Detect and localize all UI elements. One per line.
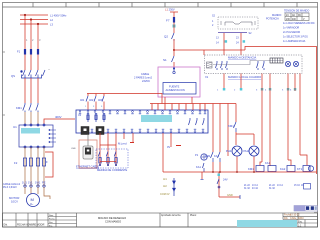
svg-text:31 32: 31 32 <box>244 188 250 190</box>
svg-text:21 22: 21 22 <box>244 185 250 187</box>
wire psu out right <box>191 97 193 104</box>
dashed measurement box <box>96 149 128 168</box>
svg-text:CABLE 4x6mm2: CABLE 4x6mm2 <box>3 183 21 186</box>
svg-text:1V1: 1V1 <box>28 181 33 185</box>
fuse F7 <box>173 17 175 23</box>
pilot light PH1 <box>232 146 242 156</box>
svg-text:24V: 24V <box>223 178 228 182</box>
svg-text:AC: AC <box>292 14 296 17</box>
fuse F6 <box>102 94 104 105</box>
svg-text:~: ~ <box>48 68 50 72</box>
svg-text:QS: QS <box>11 74 15 78</box>
svg-text:24VDC: 24VDC <box>142 80 150 83</box>
svg-text:MOLINO DE DESECHO: MOLINO DE DESECHO <box>98 216 126 220</box>
svg-text:PH2: PH2 <box>244 149 250 153</box>
svg-text:15 16: 15 16 <box>294 185 300 187</box>
svg-text:L1 400V 50Hz: L1 400V 50Hz <box>50 14 67 18</box>
soft starter U1 <box>19 124 56 148</box>
top ruler band <box>3 6 318 8</box>
wire switch to psu <box>173 50 175 56</box>
vfd relay output K2 <box>96 127 104 135</box>
title texts <box>4 214 304 228</box>
CT column 3 <box>114 152 117 166</box>
svg-text:400V: 400V <box>55 115 62 119</box>
wire drops below vfd <box>100 133 133 166</box>
svg-text:CON MANDO: CON MANDO <box>105 219 121 223</box>
svg-text:AI1: AI1 <box>163 178 167 181</box>
svg-text:PE: PE <box>42 181 46 185</box>
svg-text:DC: DC <box>298 15 302 17</box>
svg-text:RV-K 0,6/1kV: RV-K 0,6/1kV <box>3 187 17 189</box>
svg-text:USB: USB <box>71 148 76 150</box>
svg-text:21 22: 21 22 <box>269 185 275 187</box>
node L1 <box>24 14 26 16</box>
wire psu out left <box>164 97 166 104</box>
terminal cyan <box>173 25 176 28</box>
relay coil KA2 <box>287 166 295 172</box>
svg-text:F1: F1 <box>17 50 21 54</box>
svg-text:F: F <box>46 160 48 164</box>
svg-text:U1: U1 <box>13 125 17 129</box>
mini table <box>285 13 309 21</box>
svg-text:Plano:: Plano: <box>190 214 197 217</box>
wire to selector <box>203 50 205 55</box>
ct bus <box>100 161 116 163</box>
comb bus above vfd right <box>150 103 236 105</box>
svg-text:GND: GND <box>227 193 233 197</box>
wire terminals to motor <box>25 187 38 194</box>
node control bus <box>173 49 175 51</box>
disconnector QS <box>22 70 46 78</box>
svg-text:KA1: KA1 <box>214 154 219 158</box>
svg-text:3~: 3~ <box>30 202 34 206</box>
svg-text:POTENCIA: POTENCIA <box>266 18 279 21</box>
remote box dashed <box>205 55 303 74</box>
svg-text:KM1: KM1 <box>248 167 254 171</box>
node L2 <box>30 18 32 20</box>
wire control bus right <box>174 49 245 51</box>
cam block <box>270 58 283 63</box>
coil feed jogs <box>260 162 262 166</box>
bus L1 <box>20 14 48 16</box>
svg-text:Rev.: Rev. <box>49 222 53 224</box>
svg-text:1x LAMPARA ROJA: 1x LAMPARA ROJA <box>283 40 306 43</box>
svg-text:13 14: 13 14 <box>277 185 283 187</box>
legend lines <box>283 22 315 43</box>
contact KM aux <box>234 122 237 132</box>
vfd terminal micro labels <box>79 113 206 130</box>
overload relay F2 <box>23 158 45 166</box>
CT column 1 <box>98 152 101 166</box>
svg-text:KM1: KM1 <box>228 124 234 128</box>
svg-text:KM1: KM1 <box>16 106 22 110</box>
contact below meter <box>203 163 205 172</box>
wire KM to starter <box>25 112 38 124</box>
wire to remote box L <box>223 33 225 55</box>
contacts above N bus <box>211 152 221 162</box>
wire L3 feeder <box>37 24 39 49</box>
vfd inner contacts right <box>189 118 205 125</box>
svg-text:FUENTE: FUENTE <box>169 85 180 89</box>
svg-text:KA1: KA1 <box>196 165 201 169</box>
svg-text:Dib.: Dib. <box>284 217 289 220</box>
wire switch to junction <box>173 39 175 50</box>
cyan bar <box>237 220 297 227</box>
svg-text:31 32: 31 32 <box>269 188 275 190</box>
CT column 2 <box>106 152 109 166</box>
vfd display <box>141 115 172 122</box>
wire fuse to switch <box>173 23 175 34</box>
frame row tick B <box>3 114 6 116</box>
svg-text:S1: S1 <box>163 58 167 62</box>
frame row tick A <box>3 51 6 53</box>
selector hatch <box>207 62 213 68</box>
svg-text:Esc.: Esc. <box>49 225 53 227</box>
node L3 <box>37 23 39 25</box>
svg-text:0V: 0V <box>167 145 170 149</box>
svg-text:401: 401 <box>80 98 85 102</box>
wire QS to KM <box>25 78 38 103</box>
linkage <box>213 61 283 65</box>
vfd relay output K1 <box>81 127 89 135</box>
wire labels <box>218 32 247 34</box>
svg-text:1W1: 1W1 <box>35 181 41 185</box>
lamp a <box>285 61 290 66</box>
ethernet device <box>83 146 93 159</box>
columns from comb bus <box>213 104 236 157</box>
svg-text:MANDO A DISTANCIA: MANDO A DISTANCIA <box>228 56 256 60</box>
ethernet outline <box>79 140 97 168</box>
ethernet cable <box>87 135 89 146</box>
svg-text:COM 0V: COM 0V <box>160 193 170 196</box>
fuse F5 <box>94 94 96 105</box>
fuse F4 <box>86 94 88 105</box>
svg-text:KT1: KT1 <box>297 167 303 171</box>
wire aux feed to starter <box>44 119 75 124</box>
psu enclosure <box>158 67 200 97</box>
lamp b <box>293 61 298 66</box>
svg-text:X1: X1 <box>205 75 209 79</box>
motor M1 <box>27 194 40 207</box>
bus L2 <box>20 19 48 21</box>
pushbutton 2 <box>221 61 223 70</box>
svg-text:13 14: 13 14 <box>252 185 258 187</box>
svg-text:Aprobado la fecha: Aprobado la fecha <box>161 214 181 217</box>
wire control bus mid <box>87 94 162 104</box>
wire fuse to QS <box>25 55 38 71</box>
shield connector <box>173 178 176 196</box>
wire L2 feeder <box>30 20 32 50</box>
pushbutton 3 <box>226 61 228 70</box>
relay coil KM1 <box>256 166 264 172</box>
cross reference tables <box>244 185 304 190</box>
vfd U2 <box>76 110 208 133</box>
svg-text:KA2: KA2 <box>280 167 286 171</box>
svg-text:1x SELECTOR 3 POS: 1x SELECTOR 3 POS <box>283 36 308 39</box>
drops from remote box <box>224 74 300 167</box>
svg-text:1U1: 1U1 <box>22 181 27 185</box>
svg-text:MANDO LOCAL CUADRO: MANDO LOCAL CUADRO <box>228 75 262 79</box>
svg-text:TENSION DE MANDO: TENSION DE MANDO <box>284 10 309 13</box>
svg-text:Q2: Q2 <box>164 35 168 39</box>
contact 5 <box>263 61 265 70</box>
fuse F1 <box>24 49 39 55</box>
svg-text:F2: F2 <box>14 161 18 165</box>
svg-text:1x LOGO SIEMENS 230 RC: 1x LOGO SIEMENS 230 RC <box>283 22 315 25</box>
timer coil KT1 <box>303 166 310 172</box>
bus L3 <box>20 23 48 25</box>
bus drops <box>163 133 306 172</box>
relay coil KA1 <box>268 166 276 172</box>
pushbutton 1 <box>216 61 218 70</box>
svg-text:Esc.: Esc. <box>298 220 303 223</box>
svg-text:402: 402 <box>89 98 94 102</box>
PE wire to motor <box>44 187 50 199</box>
contactor KM1 main contacts <box>23 103 38 112</box>
psu FA1 <box>163 83 196 95</box>
N bus <box>163 171 313 173</box>
hour meter <box>201 154 207 160</box>
svg-text:AI2: AI2 <box>163 185 167 188</box>
terminal marks below remote box <box>217 88 296 92</box>
svg-text:PH1: PH1 <box>226 149 232 153</box>
svg-text:1x VARIADOR: 1x VARIADOR <box>283 27 299 30</box>
svg-text:2x PULSADOR: 2x PULSADOR <box>283 31 300 34</box>
svg-text:10CV: 10CV <box>11 200 18 204</box>
wire fuse drops <box>88 104 104 110</box>
wire L feed top <box>170 11 178 13</box>
svg-text:403: 403 <box>98 98 103 102</box>
pilot light PH2 <box>249 146 259 156</box>
wire starter to overload <box>25 147 44 186</box>
svg-text:F7: F7 <box>166 19 170 23</box>
vfd input elements <box>87 113 105 122</box>
svg-text:MEDIDA DE CORRIENTE: MEDIDA DE CORRIENTE <box>97 168 128 172</box>
wire to remote box R <box>240 33 242 55</box>
svg-text:43 44: 43 44 <box>252 188 258 190</box>
contact 4 <box>257 61 259 70</box>
svg-text:L1 230V: L1 230V <box>165 8 175 12</box>
wire big loop right <box>245 47 317 175</box>
svg-text:M.j.red: M.j.red <box>118 142 127 146</box>
bypass wire right of starter <box>45 152 53 177</box>
terminal circles <box>24 185 45 187</box>
junction dots on N bus <box>212 171 255 173</box>
switch S0 <box>172 33 175 39</box>
svg-text:Nom.: Nom. <box>49 215 54 217</box>
svg-text:KA1: KA1 <box>265 161 270 165</box>
svg-text:FECHA NOMBRE MODIF.: FECHA NOMBRE MODIF. <box>17 224 45 227</box>
wire L1 feeder <box>24 15 26 49</box>
drop with contact <box>201 172 220 197</box>
selector cam diagram <box>218 17 258 29</box>
vfd bottom terminals <box>83 131 204 133</box>
svg-text:P1: P1 <box>195 153 199 157</box>
svg-text:ALIMENTACION: ALIMENTACION <box>166 88 185 92</box>
vfd top terminals <box>79 111 206 113</box>
terminal numbers <box>85 106 103 108</box>
svg-text:Dib.: Dib. <box>4 224 9 227</box>
switch S1 <box>172 56 175 62</box>
svg-text:Fecha: Fecha <box>49 218 55 220</box>
